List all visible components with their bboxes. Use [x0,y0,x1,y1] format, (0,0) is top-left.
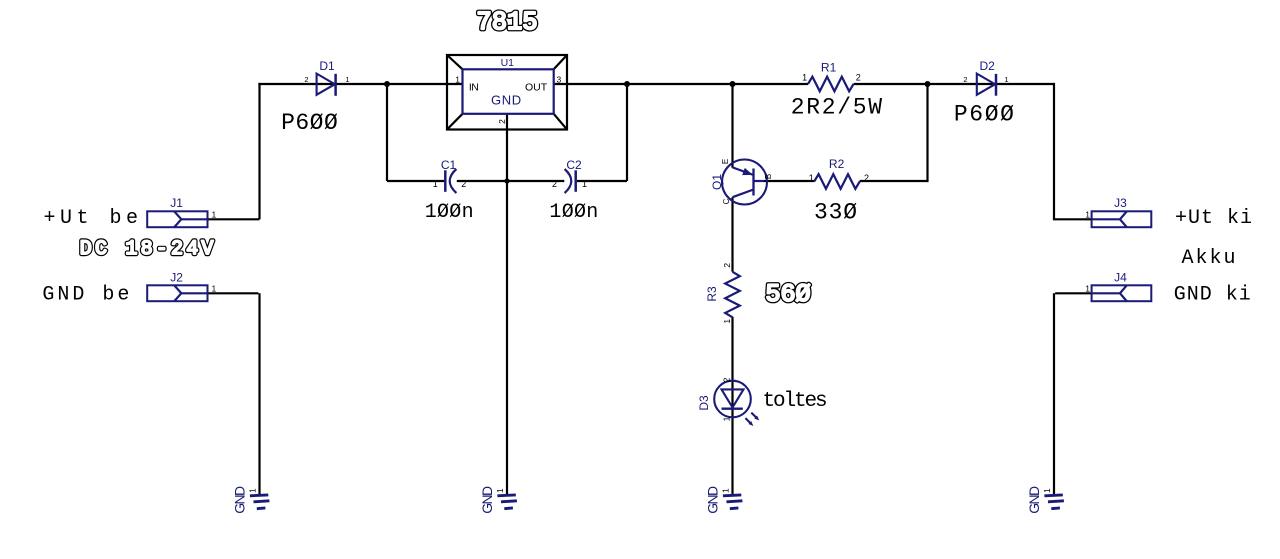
svg-text:+Ut be: +Ut be [44,207,143,230]
svg-text:1: 1 [433,179,438,189]
label Q1 [710,174,724,190]
svg-text:J1: J1 [170,196,183,210]
svg-text:2: 2 [864,173,869,183]
wire cap row left segment [387,180,444,182]
value 560 of R3 [765,280,810,309]
wire R1 to node C [854,83,929,85]
svg-text:1: 1 [809,173,814,183]
connector J3 [1092,211,1152,227]
svg-text:D1: D1 [319,59,335,73]
label J3 [1114,196,1127,210]
ground symbol 4 (J4 rail) [1026,486,1064,514]
wire D1 cathode to U1 IN [335,83,463,85]
svg-text:1: 1 [455,75,460,85]
svg-text:GND: GND [479,486,495,514]
value P600 of D2 [954,102,1016,128]
svg-text:GND ki: GND ki [1174,284,1252,307]
label DC 18-24V [80,238,217,261]
value 100n of C1 [425,201,474,224]
ground symbol 3 (LED rail) [705,486,743,514]
svg-text:GND be: GND be [42,284,132,307]
wire right corner down to J3 [1053,218,1092,220]
svg-text:2: 2 [304,75,308,84]
pin 2 of U1 [497,119,507,124]
wire R3 to LED D3 and ground [731,317,733,495]
wire node Q to R1 [733,83,809,85]
svg-text:C1: C1 [441,158,457,172]
value 2R2/5W of R1 [791,95,884,121]
wire node Q down to Q1 emitter [731,84,733,168]
LED D3 light arrow 1 [751,413,759,421]
svg-text:1: 1 [802,73,807,83]
svg-text:1: 1 [495,488,505,493]
svg-text:1: 1 [1004,75,1008,84]
pin 1 of R2 [809,173,814,183]
svg-text:GND: GND [232,486,248,514]
svg-text:2R2/5W: 2R2/5W [791,95,884,121]
pin 2 of R2 [864,173,869,183]
wire J2 to left down rail [208,293,260,495]
capacitor C2 curved plate [565,169,572,193]
label Akku [1182,247,1238,270]
ground symbol 2 (U1 GND) [479,486,517,514]
transistor Q1 base pin [754,180,765,182]
pin 2 of D1 [304,75,308,84]
label R3 [705,286,719,302]
svg-text:1: 1 [345,75,349,84]
svg-text:Q1: Q1 [710,174,724,190]
U1 inner box [463,69,554,114]
transistor Q1 collector [733,190,754,198]
svg-text:DC 18-24V: DC 18-24V [80,238,217,261]
svg-text:D2: D2 [980,59,996,73]
svg-text:J4: J4 [1114,270,1127,284]
diode D1 cathode bar [334,74,337,96]
pin 2 of R1 [856,73,861,83]
pin 1 of R3 [722,319,732,324]
Q1 pin name E [721,159,730,164]
wire node B to C2 row [626,84,628,181]
pin 1 of C2 [582,179,587,189]
svg-text:B: B [764,174,773,179]
svg-text:1: 1 [722,319,732,324]
svg-text:R2: R2 [829,157,845,171]
label J1 [170,196,183,210]
svg-text:2: 2 [497,119,507,124]
label D3 [697,395,711,411]
U1 pin name IN [469,81,479,93]
wire U1 GND pin down to ground [506,114,508,495]
op-amp U1 outer box [447,55,567,130]
label J2 [170,270,183,284]
svg-text:GND: GND [705,486,721,514]
transistor Q1 base bar [752,169,754,196]
wire cap row C1 to node D [457,180,507,182]
svg-text:2: 2 [963,75,967,84]
resistor R2 zigzag [814,174,860,189]
Q1 pin name C [722,198,731,204]
pin 2 of C1 [461,179,466,189]
wire Q1 base to R2 [764,180,814,182]
label GND ki [1174,284,1252,307]
pin 2 of R3 [722,263,732,268]
LED D3 cathode bar [722,408,743,410]
U1 bevel top-left [447,55,463,69]
wire node C to D2 anode [928,83,996,85]
value 330 of R2 [814,199,858,225]
wire J1 to left rail [208,218,260,220]
svg-text:1: 1 [1042,488,1052,493]
label +Ut ki [1175,207,1253,230]
label D2 [980,59,996,73]
pin 1 of J2 [212,284,217,294]
capacitor C1 flat plate [444,170,447,192]
svg-text:P6ØØ: P6ØØ [281,110,338,136]
pin 1 of C1 [433,179,438,189]
svg-text:J3: J3 [1114,196,1127,210]
label C1 [441,158,457,172]
value P600 of D1 [281,110,338,136]
svg-text:2: 2 [552,179,557,189]
wire cap row right segment [577,180,627,182]
svg-text:2: 2 [722,377,732,382]
svg-text:1: 1 [1085,210,1090,220]
label toltes [763,390,827,413]
svg-text:1: 1 [1085,284,1090,294]
pin 1 of U1 [455,75,460,85]
node C junction dot [925,81,931,87]
pin 1 of J1 [212,210,217,220]
svg-text:1: 1 [248,488,258,493]
svg-text:E: E [721,159,730,164]
pin 1 of R1 [802,73,807,83]
svg-text:1: 1 [722,416,732,421]
capacitor C2 flat plate [574,170,577,192]
wire D2 cathode to right corner [996,83,1055,219]
wire U1 OUT to node B [554,83,628,85]
diode D1 triangle [317,74,335,95]
pin 1 of D3 [722,416,732,421]
svg-text:IN: IN [469,81,479,93]
svg-text:1ØØn: 1ØØn [549,201,598,224]
U1 bevel top-right [554,55,567,69]
pin 1 of D2 [1004,75,1008,84]
svg-text:7815: 7815 [476,8,537,37]
svg-text:2: 2 [856,73,861,83]
pin 1 of J3 [1085,210,1090,220]
transistor Q1 emitter arrow [743,169,752,175]
svg-text:56Ø: 56Ø [765,280,810,309]
U1 pin name GND [491,93,522,108]
svg-text:C2: C2 [566,158,582,172]
node Q junction dot [730,81,736,87]
U1 bevel bottom-right [554,114,567,130]
pin 2 of C2 [552,179,557,189]
wire left rail vertical [258,83,335,219]
LED D3 circle [714,381,751,418]
Q1 pin name B [764,174,773,179]
U1 bevel bottom-left [447,114,463,130]
wire R2 to riser [860,84,928,182]
svg-text:1: 1 [212,284,217,294]
svg-text:OUT: OUT [525,81,548,93]
svg-text:33Ø: 33Ø [814,199,858,225]
label U1 [501,57,515,69]
svg-text:+Ut ki: +Ut ki [1175,207,1253,230]
connector J4 [1092,285,1152,301]
svg-text:toltes: toltes [763,390,827,413]
svg-text:GND: GND [1026,486,1042,514]
U1 pin name OUT [525,81,548,93]
wire Q1 collector down to R3 [731,197,733,272]
label GND be [42,284,132,307]
svg-text:R3: R3 [705,286,719,302]
diode D2 triangle [977,74,995,95]
diode D2 cathode bar [995,74,998,96]
LED D3 triangle [722,389,744,407]
svg-text:U1: U1 [501,57,515,69]
wire node B to node Q [627,83,733,85]
wire J4 to right down rail [1054,293,1092,495]
node B junction dot [624,81,630,87]
connector J2 [147,285,207,301]
svg-text:1: 1 [582,179,587,189]
resistor R3 zigzag [725,272,740,318]
svg-text:1: 1 [212,210,217,220]
wire node D to C2 [507,180,564,182]
svg-text:C: C [722,198,731,204]
LED D3 light arrow 2 [745,418,753,426]
connector J1 [147,211,207,227]
transistor Q1 circle [722,160,767,205]
svg-text:3: 3 [557,75,562,85]
svg-text:1: 1 [721,488,731,493]
transistor Q1 emitter [733,167,754,175]
label R1 [821,60,837,74]
label R2 [829,157,845,171]
title 7815 [476,8,537,37]
svg-text:Akku: Akku [1182,247,1238,270]
capacitor C1 curved plate [450,169,457,193]
pin 2 of D3 [722,377,732,382]
pin 1 of J4 [1085,284,1090,294]
ground symbol 1 (J2 rail) [232,486,270,514]
node D junction dot [504,178,509,183]
svg-text:R1: R1 [821,60,837,74]
svg-text:GND: GND [491,93,522,108]
resistor R1 zigzag [808,77,854,92]
svg-text:P6ØØ: P6ØØ [954,102,1016,128]
label C2 [566,158,582,172]
svg-text:D3: D3 [697,395,711,411]
svg-text:2: 2 [461,179,466,189]
value 100n of C2 [549,201,598,224]
wire node A to C1 row [386,84,388,181]
pin 2 of D2 [963,75,967,84]
svg-text:2: 2 [722,263,732,268]
label J4 [1114,270,1127,284]
pin 3 of U1 [557,75,562,85]
svg-text:1ØØn: 1ØØn [425,201,474,224]
label +Ut be [44,207,143,230]
node A junction dot [384,81,390,87]
svg-text:J2: J2 [170,270,183,284]
label D1 [319,59,335,73]
pin 1 of D1 [345,75,349,84]
